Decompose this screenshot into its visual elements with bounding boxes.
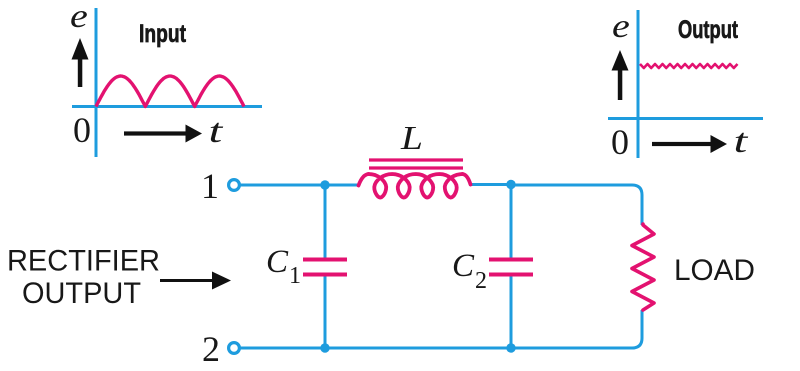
inductor L coil <box>359 174 471 198</box>
svg-text:e: e <box>612 8 630 45</box>
svg-text:L: L <box>400 119 423 157</box>
capacitor C1 label <box>266 244 301 289</box>
output graph x-axis <box>608 117 763 120</box>
inductor L iron core bars <box>369 160 463 168</box>
svg-text:OUTPUT: OUTPUT <box>22 277 141 310</box>
svg-text:0: 0 <box>611 122 629 162</box>
svg-text:t: t <box>734 122 749 160</box>
svg-text:LOAD: LOAD <box>674 254 755 287</box>
rectifier output label <box>7 245 160 311</box>
input graph t arrow <box>124 125 202 143</box>
svg-text:2: 2 <box>475 268 487 294</box>
input graph y-axis <box>95 8 98 157</box>
svg-text:C: C <box>452 248 475 284</box>
input waveform (rectified sine humps) <box>96 76 244 107</box>
wire: C1 branch lower <box>324 275 327 348</box>
resistor (load) <box>632 224 654 310</box>
wire: bottom rail C1 junction to terminal 2 <box>240 347 325 350</box>
output graph t arrow <box>652 135 727 153</box>
output graph y-axis <box>637 10 640 158</box>
svg-text:Input: Input <box>139 20 187 48</box>
wire: terminal 1 to C1 junction <box>240 184 325 187</box>
rectifier output arrow <box>160 272 231 290</box>
junction dot: top C2 <box>506 180 515 189</box>
junction dot: bottom C2 <box>506 343 515 352</box>
wire: C2 branch upper <box>510 185 513 259</box>
junction dot: top C1 <box>320 180 329 189</box>
terminal 1 <box>229 180 240 191</box>
svg-text:1: 1 <box>289 263 301 289</box>
svg-text:C: C <box>266 244 289 280</box>
input graph x-axis <box>72 105 262 108</box>
svg-text:RECTIFIER: RECTIFIER <box>7 245 160 278</box>
svg-text:2: 2 <box>202 329 220 369</box>
wire: C1 junction to inductor <box>325 184 360 187</box>
junction dot: bottom C1 <box>320 343 329 352</box>
input graph up arrow <box>72 38 89 87</box>
svg-text:e: e <box>70 0 88 35</box>
svg-text:0: 0 <box>73 110 91 150</box>
output waveform (dc with ripple) <box>640 64 738 68</box>
wire: C2 junction to load (top right, rounded corner) <box>511 185 642 225</box>
wire: inductor to C2 junction <box>469 183 511 186</box>
output graph up arrow <box>612 50 629 100</box>
wire: C2 branch lower <box>510 275 513 348</box>
terminal 2 <box>229 343 240 354</box>
svg-text:1: 1 <box>201 166 219 206</box>
svg-text:Output: Output <box>678 16 738 44</box>
wire: C1 branch upper <box>324 185 327 259</box>
capacitor C1 <box>303 258 347 277</box>
capacitor C2 <box>489 258 533 277</box>
svg-text:t: t <box>209 112 224 150</box>
capacitor C2 label <box>452 248 487 294</box>
wire: bottom rail C2 junction to C1 junction <box>325 347 511 350</box>
wire: load bottom to bottom rail (rounded corner) <box>511 310 642 348</box>
